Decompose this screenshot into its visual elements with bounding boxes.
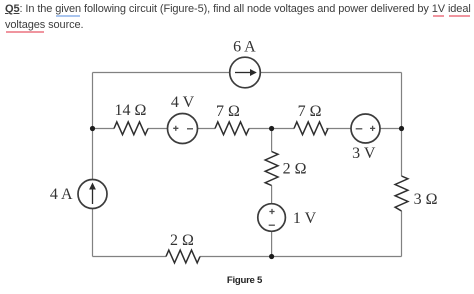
svg-text:2 Ω: 2 Ω bbox=[283, 160, 307, 177]
svg-text:2 Ω: 2 Ω bbox=[170, 232, 194, 249]
svg-text:Figure 5: Figure 5 bbox=[227, 275, 263, 286]
svg-text:1 V: 1 V bbox=[293, 210, 317, 227]
svg-text:3 V: 3 V bbox=[352, 145, 376, 162]
svg-text:3 Ω: 3 Ω bbox=[414, 191, 438, 208]
svg-text:4 A: 4 A bbox=[50, 186, 73, 203]
svg-text:14 Ω: 14 Ω bbox=[115, 102, 147, 119]
svg-text:6 A: 6 A bbox=[233, 38, 256, 55]
svg-text:7 Ω: 7 Ω bbox=[298, 103, 322, 120]
svg-text:7 Ω: 7 Ω bbox=[216, 103, 240, 120]
svg-text:4 V: 4 V bbox=[171, 94, 195, 111]
